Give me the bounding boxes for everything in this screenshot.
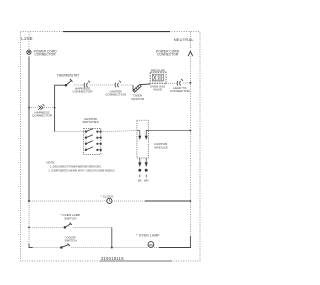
svg-text:CONNECTOR: CONNECTOR	[34, 53, 56, 57]
svg-text:* CLOCK: * CLOCK	[101, 194, 115, 198]
wire	[90, 84, 114, 86]
wire harness row	[29, 107, 38, 109]
svg-text:316019115: 316019115	[101, 256, 124, 261]
wire	[74, 84, 84, 86]
wire	[30, 200, 107, 202]
harness connector (lower)	[38, 104, 44, 109]
switch door	[61, 244, 70, 249]
wire	[154, 247, 159, 249]
svg-text:NEUTRAL: NEUTRAL	[174, 37, 195, 42]
svg-text:CONNECTOR: CONNECTOR	[157, 53, 179, 57]
oven lamp switch row	[28, 227, 30, 229]
wire L1 vertical lower	[28, 201, 30, 247]
node junction	[28, 107, 30, 109]
wire L1 vertical	[28, 56, 30, 201]
limiter connection	[115, 81, 121, 88]
node junction	[190, 130, 192, 132]
svg-text:* OVEN LAMP: * OVEN LAMP	[136, 234, 159, 238]
wire	[29, 244, 33, 248]
wire	[30, 226, 65, 228]
node junction	[54, 107, 56, 109]
wire	[183, 82, 191, 84]
svg-text:VALVE: VALVE	[153, 87, 162, 91]
svg-text:IGNITOR: IGNITOR	[131, 97, 145, 101]
wire	[71, 247, 111, 249]
svg-text:CONNECTOR: CONNECTOR	[32, 114, 53, 118]
wire to switches	[55, 131, 86, 133]
oven ignitor (hatched)	[133, 84, 150, 92]
clock row	[28, 200, 30, 202]
wire switches to module	[101, 131, 137, 132]
svg-text:NOTE:: NOTE:	[46, 161, 55, 165]
module outputs	[139, 158, 147, 177]
wire bus in switches	[85, 132, 87, 150]
switch S1	[85, 129, 101, 133]
wire neutral vertical	[189, 56, 191, 236]
svg-text:CONNECTOR: CONNECTOR	[73, 90, 94, 94]
svg-text:THERMOSTAT: THERMOSTAT	[57, 73, 79, 77]
node junction	[190, 200, 192, 202]
switch S3	[85, 141, 101, 145]
switch S2	[85, 135, 101, 139]
svg-text:PRESSURE: PRESSURE	[151, 68, 166, 72]
svg-text:CONNECTION: CONNECTION	[105, 93, 126, 97]
node junction	[190, 82, 192, 84]
wire	[73, 226, 111, 228]
svg-text:MODULE: MODULE	[154, 146, 167, 150]
wire	[121, 84, 133, 86]
harness connector (main row)	[84, 81, 90, 88]
wire corner to neutral	[189, 236, 191, 248]
electrode 1	[137, 131, 141, 139]
lead connector	[177, 79, 183, 86]
ignitor module	[137, 120, 148, 158]
svg-text:WH: WH	[144, 178, 148, 182]
svg-text:L1NE: L1NE	[21, 36, 32, 41]
wire	[113, 247, 148, 249]
node junction	[111, 247, 113, 249]
power cord connector (L1 side)	[27, 32, 31, 55]
svg-text:SWITCH: SWITCH	[64, 239, 76, 243]
wire riser to thermostat row	[55, 85, 66, 131]
svg-text:1. DISCONNECT POWER BEFORE SER: 1. DISCONNECT POWER BEFORE SERVICING.	[50, 167, 102, 169]
svg-text:SWITCH: SWITCH	[64, 217, 76, 221]
wire module to neutral	[148, 129, 190, 131]
wire	[112, 200, 145, 202]
switch S4	[85, 147, 101, 151]
power cord connector (neutral side)	[188, 32, 193, 57]
switch oven lamp	[64, 223, 72, 229]
svg-text:CONNECTOR: CONNECTOR	[170, 89, 191, 93]
electrode 2 / wire to neutral	[145, 130, 148, 138]
wire	[166, 82, 176, 84]
svg-text:2. COMPONENTS SHOWN WITH * USE: 2. COMPONENTS SHOWN WITH * USED ON SOME …	[48, 170, 115, 172]
wire drop	[111, 227, 113, 247]
border frame	[21, 32, 201, 261]
svg-text:BK: BK	[138, 178, 142, 182]
svg-text:SWITCHES: SWITCHES	[82, 120, 98, 124]
wire	[145, 200, 190, 202]
